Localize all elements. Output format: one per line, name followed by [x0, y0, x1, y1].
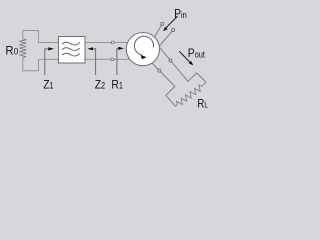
- node Z2 pointer and arrow: [87, 47, 95, 75]
- filter wavy line 3: [62, 53, 80, 56]
- circulator U2 (circle): [126, 33, 159, 66]
- filter U1 (box): [59, 37, 86, 64]
- svg-text:Z1: Z1: [43, 79, 54, 92]
- circulator rotation arc: [134, 36, 153, 55]
- filter wavy line 2: [62, 48, 80, 51]
- resistor R0: [19, 39, 26, 59]
- resistor RL: [175, 82, 206, 106]
- svg-text:RL: RL: [197, 97, 207, 110]
- wire Pout port lower (to RL): [152, 63, 175, 106]
- terminal Pin lower: [172, 28, 175, 31]
- wire Pin port upper: [154, 25, 161, 37]
- node Z1 pointer and arrow: [45, 47, 54, 75]
- terminal upper-left port: [111, 41, 114, 44]
- filter wavy line 1: [62, 42, 80, 45]
- svg-text:Pin: Pin: [174, 8, 187, 21]
- circulator arrowhead: [141, 55, 147, 59]
- terminal lower-left port: [111, 58, 114, 61]
- wire Pout port upper (to RL): [160, 48, 206, 82]
- wire Pin port lower: [159, 31, 172, 46]
- terminal Pout upper: [169, 59, 172, 62]
- svg-text:Z2: Z2: [95, 79, 106, 92]
- wire lower: filter to circulator: [85, 58, 130, 60]
- node R1 pointer and arrow: [117, 47, 124, 75]
- arrow Pin (incident wave): [163, 16, 178, 31]
- terminal Pin upper: [161, 22, 164, 25]
- wire R0 bottom lead: [23, 59, 59, 71]
- wire upper: filter to circulator: [85, 42, 127, 44]
- arrow Pout (outgoing wave): [179, 51, 193, 65]
- terminal Pout lower: [158, 69, 161, 72]
- svg-text:R1: R1: [111, 79, 123, 92]
- svg-text:Pout: Pout: [188, 47, 206, 60]
- wire R0 top lead: [23, 31, 59, 43]
